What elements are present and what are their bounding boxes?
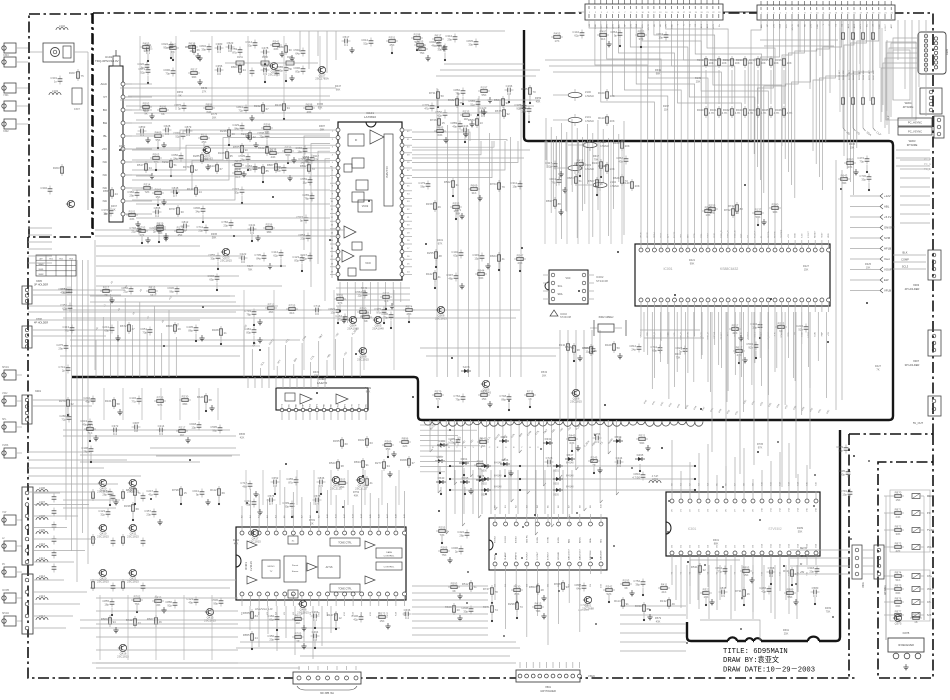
svg-text:SP401: SP401 (2, 367, 10, 369)
svg-text:11K: 11K (180, 433, 185, 437)
svg-text:IN4148: IN4148 (494, 463, 502, 465)
svg-text:20p: 20p (146, 512, 151, 516)
mid column parts (426, 249, 526, 289)
svg-text:52p: 52p (140, 70, 145, 74)
audio line-in parts (81, 421, 222, 463)
svg-text:2SC1815: 2SC1815 (97, 580, 109, 584)
svg-text:R123: R123 (187, 187, 194, 191)
svg-text:R034: R034 (749, 58, 756, 62)
buffer transistor Q904 (347, 316, 359, 330)
svg-text:G VOUT: G VOUT (537, 551, 539, 560)
svg-text:R892: R892 (300, 164, 307, 168)
svg-text:1n: 1n (54, 79, 58, 83)
svg-text:29p: 29p (129, 193, 134, 197)
svg-text:24: 24 (243, 68, 247, 72)
svg-text:6K: 6K (161, 112, 165, 116)
svg-text:X002 10MHz: X002 10MHz (599, 315, 615, 319)
svg-text:R675: R675 (495, 109, 502, 113)
svg-text:IN4148: IN4148 (494, 476, 502, 478)
svg-text:VCO: VCO (365, 261, 371, 265)
signal option table (36, 255, 76, 276)
svg-text:30p: 30p (468, 42, 473, 46)
svg-text:G: G (505, 447, 507, 449)
svg-text:R407: R407 (119, 144, 126, 148)
svg-text:32p: 32p (100, 512, 105, 516)
AGC filter parts (101, 185, 205, 227)
svg-text:34p: 34p (195, 209, 200, 213)
bottom-left lattice (96, 595, 238, 663)
svg-text:X304: X304 (3, 54, 9, 57)
svg-text:28: 28 (541, 588, 545, 592)
svg-text:R876: R876 (895, 596, 902, 600)
svg-text:66: 66 (197, 48, 201, 52)
svg-text:HD: HD (804, 24, 806, 28)
svg-text:15: 15 (184, 491, 188, 495)
svg-text:R389: R389 (787, 587, 794, 591)
svg-text:58: 58 (117, 402, 121, 406)
IC101 below-body horizontals (336, 288, 410, 306)
transistor Q416 (117, 644, 129, 658)
svg-text:23p: 23p (300, 236, 305, 240)
svg-text:R227: R227 (803, 264, 810, 268)
svg-text:C652: C652 (272, 476, 279, 480)
svg-text:R875: R875 (895, 583, 902, 587)
svg-text:R289: R289 (797, 526, 804, 530)
svg-text:24: 24 (115, 192, 119, 196)
svg-text:21K: 21K (662, 590, 667, 594)
svg-text:C846: C846 (318, 476, 325, 480)
svg-text:32: 32 (703, 568, 707, 572)
horizontal bus wires (left-center) (63, 31, 530, 346)
svg-text:P.R: P.R (927, 512, 931, 515)
svg-text:70p: 70p (142, 330, 147, 334)
svg-text:20K: 20K (625, 144, 630, 148)
svg-text:72p: 72p (61, 417, 66, 421)
svg-text:R649: R649 (365, 386, 372, 390)
svg-text:D576: D576 (478, 474, 485, 478)
svg-text:DRAW BY:袁亚文: DRAW BY:袁亚文 (723, 655, 779, 665)
option parts (729, 321, 808, 364)
svg-text:33K: 33K (144, 49, 149, 53)
bottom long wires (92, 642, 516, 668)
micro lower parts (559, 341, 687, 362)
svg-text:62p: 62p (574, 33, 579, 37)
svg-text:C523: C523 (227, 41, 234, 45)
mute transistor Q907 (357, 347, 369, 361)
microcontroller IC001 KS88C6432 (635, 229, 831, 340)
svg-text:IR RECEIVER: IR RECEIVER (898, 644, 914, 647)
video out parts (445, 580, 615, 622)
filament supply parts (543, 432, 651, 474)
svg-text:X003: X003 (913, 283, 920, 287)
svg-text:15: 15 (442, 121, 446, 125)
svg-text:47p: 47p (424, 106, 429, 110)
svg-text:73: 73 (520, 605, 524, 609)
reset circuit parts (702, 202, 781, 226)
svg-text:R767: R767 (169, 207, 176, 211)
svg-text:10K: 10K (787, 61, 792, 65)
svg-text:R482: R482 (448, 98, 455, 102)
svg-text:R453: R453 (635, 604, 642, 608)
svg-text:R871: R871 (895, 507, 902, 511)
svg-text:C517: C517 (343, 35, 350, 39)
svg-text:EW: EW (884, 278, 889, 282)
svg-text:R517: R517 (191, 67, 198, 71)
svg-text:41: 41 (502, 257, 506, 261)
svg-text:R265: R265 (441, 545, 448, 549)
wire bundle connector X001 to IC001 (589, 20, 782, 244)
svg-text:D501: D501 (553, 471, 559, 473)
svg-text:4.5MHz: 4.5MHz (600, 144, 610, 148)
svg-text:96K: 96K (336, 87, 341, 91)
east-west parts (836, 445, 852, 498)
svg-text:X501: X501 (545, 686, 551, 689)
svg-text:R120: R120 (613, 141, 620, 145)
svg-text:VREF E: VREF E (516, 552, 518, 560)
svg-text:C796: C796 (768, 566, 775, 570)
svg-text:C848: C848 (172, 186, 179, 190)
svg-text:RESET: RESET (815, 230, 817, 238)
svg-text:R219: R219 (303, 156, 310, 160)
svg-text:C464: C464 (312, 630, 319, 634)
svg-text:X007: X007 (913, 359, 920, 363)
svg-text:37K: 37K (314, 157, 319, 161)
svg-text:44: 44 (279, 166, 283, 170)
svg-text:VFLB: VFLB (641, 331, 643, 337)
svg-text:V402: V402 (2, 393, 8, 395)
svg-text:4P WIRE: 4P WIRE (884, 585, 887, 595)
svg-text:97K: 97K (758, 445, 763, 449)
svg-text:C879: C879 (185, 125, 192, 129)
svg-text:D866: D866 (502, 458, 509, 462)
svg-text:15K: 15K (804, 267, 809, 271)
svg-text:19K: 19K (190, 49, 195, 53)
svg-text:SPL: SPL (2, 419, 7, 421)
svg-text:R711: R711 (527, 389, 534, 393)
svg-text:+12V: +12V (860, 23, 862, 29)
net flags right column (850, 194, 895, 294)
svg-text:R193: R193 (623, 578, 630, 582)
svg-text:2p: 2p (455, 549, 459, 553)
svg-text:24K: 24K (896, 515, 901, 519)
svg-text:49: 49 (672, 602, 676, 606)
svg-text:43p: 43p (618, 159, 623, 163)
svg-text:R685: R685 (437, 125, 444, 129)
switch transistor Q006 (570, 389, 582, 403)
svg-text:X-OUT: X-OUT (808, 231, 810, 238)
svg-text:58K: 58K (212, 235, 217, 239)
svg-text:PRE: PRE (324, 403, 326, 408)
svg-text:IC001: IC001 (663, 267, 672, 271)
svg-text:R655: R655 (233, 145, 240, 149)
svg-text:59K: 59K (640, 441, 645, 445)
svg-text:R705: R705 (757, 442, 764, 446)
connector X001 (top, to power board) (578, 0, 757, 20)
audio input horizontals (28, 452, 141, 492)
svg-text:2SC1815: 2SC1815 (249, 540, 261, 544)
svg-text:69K: 69K (896, 604, 901, 608)
svg-text:CLAMP: CLAMP (504, 552, 507, 560)
connector X402 (side AV in) (22, 487, 33, 565)
svg-text:3P WIRE: 3P WIRE (907, 143, 918, 147)
svg-text:2SC2120: 2SC2120 (355, 487, 367, 491)
diode D006 (461, 365, 471, 373)
svg-text:R762: R762 (724, 208, 731, 212)
svg-text:R314: R314 (144, 182, 151, 186)
svg-text:R549: R549 (201, 86, 208, 90)
svg-text:49K: 49K (234, 541, 239, 545)
IC801 outer pin labels (672, 481, 818, 575)
svg-text:91: 91 (626, 602, 630, 606)
svg-text:87p: 87p (288, 480, 293, 484)
right inner rails (836, 160, 842, 410)
svg-text:31K: 31K (472, 191, 477, 195)
connector X305 3P HOLDER (22, 280, 125, 304)
svg-text:CVBS: CVBS (2, 445, 9, 447)
svg-text:R379: R379 (59, 399, 66, 403)
svg-text:HFLB: HFLB (884, 247, 891, 251)
svg-text:R VIN: R VIN (537, 537, 539, 543)
svg-text:43K: 43K (656, 619, 661, 623)
svg-text:SDA: SDA (558, 293, 563, 296)
svg-text:37: 37 (412, 461, 416, 465)
svg-text:TONE CTRL: TONE CTRL (338, 588, 352, 591)
svg-text:VOUF: VOUF (884, 268, 892, 272)
svg-text:76p: 76p (455, 91, 460, 95)
svg-text:R245: R245 (591, 455, 598, 459)
svg-text:40K: 40K (354, 493, 359, 497)
svg-text:56p: 56p (420, 184, 425, 188)
svg-text:2SC2688: 2SC2688 (582, 607, 594, 611)
svg-text:MUTE: MUTE (648, 23, 650, 30)
svg-text:B GS3: B GS3 (516, 536, 518, 543)
svg-text:83p: 83p (294, 258, 299, 262)
svg-text:R834: R834 (354, 460, 361, 464)
svg-text:R046: R046 (775, 108, 782, 112)
svg-text:48p: 48p (448, 276, 453, 280)
bus left of IC101 (304, 136, 332, 301)
svg-text:R462: R462 (358, 438, 365, 442)
connector X007 3P HOLDER (905, 330, 941, 367)
tuner U101 (95, 50, 132, 222)
svg-text:R873: R873 (895, 541, 902, 545)
antenna balun T401 (30, 24, 88, 210)
svg-text:+5V: +5V (828, 331, 830, 335)
svg-text:83: 83 (740, 207, 744, 211)
svg-text:TV/AV: TV/AV (927, 529, 934, 532)
RGB/OSD interface IC501 LM1269 (489, 514, 607, 612)
svg-text:R731: R731 (735, 589, 742, 593)
svg-text:R579: R579 (655, 616, 662, 620)
svg-text:R307: R307 (69, 71, 76, 75)
svg-text:CON: CON (815, 332, 817, 337)
svg-text:IC975: IC975 (903, 632, 910, 635)
svg-text:63K: 63K (438, 133, 443, 137)
svg-text:BL: BL (103, 134, 107, 138)
svg-text:75: 75 (81, 74, 85, 78)
svg-text:3K: 3K (624, 586, 628, 590)
svg-text:R152: R152 (254, 104, 261, 108)
svg-text:R308: R308 (400, 458, 407, 462)
svg-text:Z103: Z103 (585, 163, 591, 167)
svg-text:C356: C356 (216, 64, 223, 68)
svg-text:C848: C848 (720, 586, 727, 590)
svg-text:9K: 9K (364, 319, 368, 323)
svg-text:+12V: +12V (713, 23, 715, 29)
svg-text:2K: 2K (310, 521, 313, 525)
svg-text:R572: R572 (126, 488, 133, 492)
svg-text:R217: R217 (179, 425, 186, 429)
svg-text:+9V: +9V (666, 23, 668, 27)
svg-text:25K: 25K (784, 631, 789, 635)
sound trap components (207, 250, 304, 292)
svg-text:+12V: +12V (884, 194, 891, 198)
svg-text:28p: 28p (102, 492, 107, 496)
video detector components (150, 127, 279, 171)
svg-text:R455: R455 (554, 31, 561, 35)
svg-text:R870: R870 (895, 490, 902, 494)
svg-text:10K: 10K (850, 145, 855, 149)
svg-text:Z101: Z101 (585, 115, 591, 119)
svg-text:C196: C196 (506, 84, 513, 88)
blanking diodes IN4148 (449, 463, 696, 497)
svg-text:R015 10K: R015 10K (853, 70, 855, 80)
svg-text:Z100: Z100 (585, 90, 591, 94)
svg-text:R698: R698 (306, 102, 313, 106)
svg-text:C576: C576 (268, 494, 275, 498)
speaker connector X402 (293, 666, 361, 695)
svg-text:20p: 20p (809, 569, 814, 573)
svg-text:R100: R100 (598, 91, 605, 95)
audio mid horizontals (63, 448, 236, 508)
svg-text:C714: C714 (314, 304, 321, 308)
svg-text:R837: R837 (546, 199, 553, 203)
svg-text:62: 62 (71, 402, 75, 406)
svg-text:R192: R192 (160, 104, 167, 108)
svg-text:92p: 92p (167, 603, 172, 607)
svg-text:21: 21 (224, 331, 228, 335)
cable bumps on CRT outline (728, 637, 819, 643)
svg-text:ST24C08: ST24C08 (560, 315, 572, 319)
svg-text:62p: 62p (838, 448, 843, 452)
svg-text:SVM: SVM (884, 236, 891, 240)
svg-text:R584: R584 (468, 118, 475, 122)
svg-text:R669: R669 (471, 183, 478, 187)
svg-text:R035: R035 (762, 58, 769, 62)
svg-text:73K: 73K (676, 355, 681, 359)
svg-text:R631: R631 (655, 68, 662, 72)
svg-text:R153: R153 (287, 56, 293, 59)
svg-text:27K: 27K (236, 167, 241, 171)
svg-text:SDA: SDA (589, 538, 592, 543)
svg-text:R445: R445 (569, 433, 576, 437)
wires below IC401 (250, 606, 331, 659)
svg-text:90: 90 (245, 148, 249, 152)
svg-text:55K: 55K (798, 529, 803, 533)
svg-text:C580: C580 (812, 586, 819, 590)
svg-text:24: 24 (255, 636, 259, 640)
IC401 top stubs (242, 485, 405, 522)
svg-text:VD: VD (654, 24, 656, 27)
svg-text:11K: 11K (664, 107, 669, 111)
svg-text:H.OUT: H.OUT (601, 23, 603, 30)
connector X002 (top right) (757, 1, 895, 20)
svg-text:39K: 39K (192, 75, 197, 79)
svg-text:R717: R717 (157, 223, 164, 227)
micro right parts (838, 156, 871, 192)
svg-text:15K: 15K (896, 498, 901, 502)
svg-text:R455: R455 (143, 41, 150, 45)
svg-text:30p: 30p (463, 609, 468, 613)
wires into IC801 top (672, 440, 807, 491)
svg-text:Q975: Q975 (895, 622, 902, 626)
svg-text:R844: R844 (478, 268, 485, 272)
svg-text:AV SS: AV SS (326, 566, 333, 569)
wire bus from micro section to video section (430, 420, 619, 535)
svg-text:2SC1815: 2SC1815 (357, 358, 369, 362)
svg-text:75K: 75K (826, 609, 831, 613)
vertical bus center page (437, 88, 600, 420)
CRT board connector X501 (516, 662, 595, 693)
svg-text:42K: 42K (896, 549, 901, 553)
IF/video/chroma IC101 LA76810 (330, 111, 412, 280)
svg-text:83p: 83p (295, 69, 300, 73)
left rails (88, 60, 95, 370)
svg-text:C380: C380 (216, 42, 223, 46)
svg-text:AFC: AFC (890, 24, 893, 29)
svg-text:29p: 29p (447, 37, 452, 41)
svg-text:92p: 92p (516, 106, 521, 110)
svg-text:R043: R043 (736, 108, 743, 112)
video in parts row (154, 220, 275, 243)
svg-text:L303: L303 (52, 89, 59, 93)
svg-text:75p: 75p (259, 134, 264, 138)
svg-text:11p: 11p (303, 180, 308, 184)
svg-text:R267: R267 (663, 104, 670, 108)
svg-text:4.5MHz: 4.5MHz (610, 184, 620, 188)
svg-text:SDA: SDA (635, 23, 638, 28)
svg-text:LV1116: LV1116 (249, 561, 253, 571)
svg-text:75: 75 (460, 101, 464, 105)
svg-text:70p: 70p (165, 71, 170, 75)
EEPROM IC002 ST24C08 (543, 270, 608, 319)
svg-text:69: 69 (222, 491, 226, 495)
svg-text:R531: R531 (691, 565, 698, 569)
svg-text:78p: 78p (83, 449, 88, 453)
svg-text:62p: 62p (273, 253, 278, 257)
chroma trap parts (244, 302, 415, 344)
svg-text:C372: C372 (112, 424, 119, 428)
svg-text:BH: BH (103, 121, 107, 125)
svg-text:78p: 78p (246, 312, 251, 316)
left mid horizontals (28, 306, 240, 356)
svg-text:48: 48 (439, 254, 443, 258)
VGA connector X305 (886, 32, 949, 120)
audio power amp IC402 LA4270 (276, 377, 368, 420)
svg-text:S.M: S.M (927, 614, 931, 617)
cable hop arcs under micro section edge (424, 422, 703, 427)
svg-text:VOL+: VOL+ (927, 588, 934, 591)
svg-text:2SC1815: 2SC1815 (117, 655, 129, 659)
svg-text:17K: 17K (202, 89, 207, 93)
svg-text:R132: R132 (660, 599, 667, 603)
svg-text:R867: R867 (267, 163, 274, 167)
svg-text:D540: D540 (438, 476, 445, 480)
svg-text:52p: 52p (363, 41, 368, 45)
svg-text:96p: 96p (169, 289, 174, 293)
svg-text:R512: R512 (462, 582, 469, 586)
svg-text:61K: 61K (290, 311, 295, 315)
